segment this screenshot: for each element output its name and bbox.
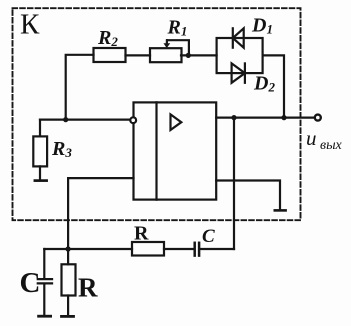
svg-text:D2: D2 — [253, 73, 275, 95]
resistor R2 — [94, 48, 126, 62]
op-amp inner divider — [155, 102, 157, 199]
svg-text:R: R — [134, 223, 149, 245]
svg-text:ивых: ивых — [306, 126, 343, 153]
capacitor C (bottom left) — [38, 249, 52, 315]
op-amp gain triangle — [171, 114, 182, 130]
node: junction dot on input wire — [63, 117, 68, 122]
wire R1 to diode pair — [181, 54, 217, 56]
node: input terminal circle — [130, 117, 136, 123]
svg-text:R2: R2 — [97, 27, 118, 49]
node: bottom junction dot — [66, 246, 71, 251]
svg-text:К: К — [20, 9, 40, 41]
wire: op-amp lower right to ground — [216, 181, 280, 210]
diode D1 — [233, 28, 244, 47]
dashed box K — [13, 8, 301, 220]
svg-text:C: C — [202, 226, 215, 247]
wire R to C (series) — [164, 248, 193, 250]
svg-text:R3: R3 — [51, 138, 72, 160]
svg-text:D1: D1 — [251, 15, 273, 37]
wire: output — [216, 116, 314, 118]
resistor R (series, bottom) — [132, 242, 164, 256]
wire diode pair to output node — [263, 55, 284, 117]
wire: output down to series RC — [233, 118, 235, 249]
diode pair frame wires — [217, 38, 263, 73]
svg-text:R1: R1 — [167, 17, 188, 39]
diode D2 — [232, 63, 245, 82]
svg-text:C: C — [20, 267, 41, 299]
op-amp U1 body — [134, 102, 217, 199]
wire R2 to R1 — [126, 54, 151, 56]
node: output terminal circle — [315, 115, 321, 121]
R1 wiper arrow — [167, 40, 189, 55]
wire: bottom horizontal bus — [44, 248, 132, 250]
ground (R3) — [35, 179, 47, 182]
node: R1 wiper junction dot — [186, 53, 191, 58]
ground (bottom C) — [39, 315, 51, 318]
node: output junction dot B — [281, 115, 286, 120]
capacitor C (series) — [195, 243, 199, 256]
resistor R1 (trimmer body) — [150, 48, 182, 62]
ground (bottom R) — [62, 315, 74, 318]
wire: non-inverting input — [40, 118, 130, 120]
resistor R3 — [33, 120, 47, 180]
ground (op-amp) — [275, 209, 286, 212]
node: R2 vertical tap from inverting input — [66, 55, 94, 120]
wire C to output vertical — [199, 248, 234, 250]
node: output junction dot A — [231, 115, 236, 120]
svg-text:R: R — [78, 273, 98, 303]
resistor R (bottom left) — [62, 249, 76, 315]
wire: inverting input down to bottom RC — [68, 178, 133, 249]
